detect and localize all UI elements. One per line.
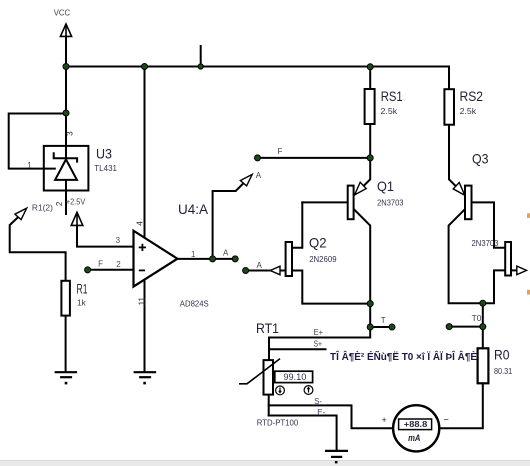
svg-text:RS2: RS2	[460, 88, 484, 104]
svg-text:A: A	[223, 249, 229, 258]
svg-text:80.31: 80.31	[494, 367, 513, 376]
svg-text:3: 3	[66, 131, 75, 136]
svg-text:1k: 1k	[77, 299, 87, 308]
svg-text:AD824S: AD824S	[180, 300, 209, 309]
svg-text:−: −	[444, 415, 449, 425]
svg-text:Q3: Q3	[472, 150, 489, 166]
svg-text:2.5k: 2.5k	[381, 107, 399, 116]
svg-text:VCC: VCC	[54, 8, 71, 17]
svg-text:F: F	[98, 260, 103, 269]
svg-text:U4:A: U4:A	[178, 201, 209, 217]
svg-text:T: T	[381, 316, 386, 325]
svg-text:E-: E-	[317, 408, 325, 417]
svg-text:Q1: Q1	[377, 178, 394, 194]
svg-text:RT1: RT1	[256, 320, 279, 336]
svg-text:2N3703: 2N3703	[472, 239, 499, 248]
svg-text:Q2: Q2	[309, 235, 327, 251]
svg-text:T0: T0	[472, 314, 482, 323]
svg-text:1: 1	[27, 161, 32, 170]
svg-text:11: 11	[138, 297, 147, 306]
svg-text:S-: S-	[314, 397, 322, 406]
svg-text:TL431: TL431	[94, 164, 117, 173]
svg-text:2N2609: 2N2609	[309, 255, 337, 264]
svg-text:R1(2): R1(2)	[32, 204, 53, 213]
svg-text:RS1: RS1	[381, 88, 403, 104]
svg-text:4: 4	[135, 221, 144, 226]
svg-text:TÎ Â¶È² ÉÑù¶Ë T0 ×î Ï ÂÏ ÞÎ Â¶: TÎ Â¶È² ÉÑù¶Ë T0 ×î Ï ÂÏ ÞÎ Â¶È	[330, 350, 477, 363]
svg-text:RTD-PT100: RTD-PT100	[257, 418, 299, 427]
svg-text:+2.5V: +2.5V	[66, 197, 86, 206]
svg-text:+88.8: +88.8	[404, 419, 428, 429]
svg-text:+: +	[382, 415, 387, 425]
svg-text:F: F	[278, 147, 283, 156]
svg-text:2: 2	[55, 201, 64, 206]
svg-text:E+: E+	[314, 328, 324, 337]
svg-text:R0: R0	[494, 347, 510, 363]
svg-text:3: 3	[116, 236, 121, 245]
svg-text:A: A	[256, 171, 262, 180]
svg-text:R1: R1	[77, 280, 88, 296]
svg-text:2.5k: 2.5k	[460, 107, 478, 116]
svg-text:A: A	[257, 261, 263, 270]
svg-text:mA: mA	[408, 433, 420, 443]
svg-text:U3: U3	[96, 146, 112, 162]
svg-text:1: 1	[191, 250, 196, 259]
svg-text:2N3703: 2N3703	[377, 198, 404, 207]
svg-text:2: 2	[116, 260, 121, 269]
svg-text:S+: S+	[314, 339, 323, 348]
svg-text:99.10: 99.10	[283, 372, 306, 382]
